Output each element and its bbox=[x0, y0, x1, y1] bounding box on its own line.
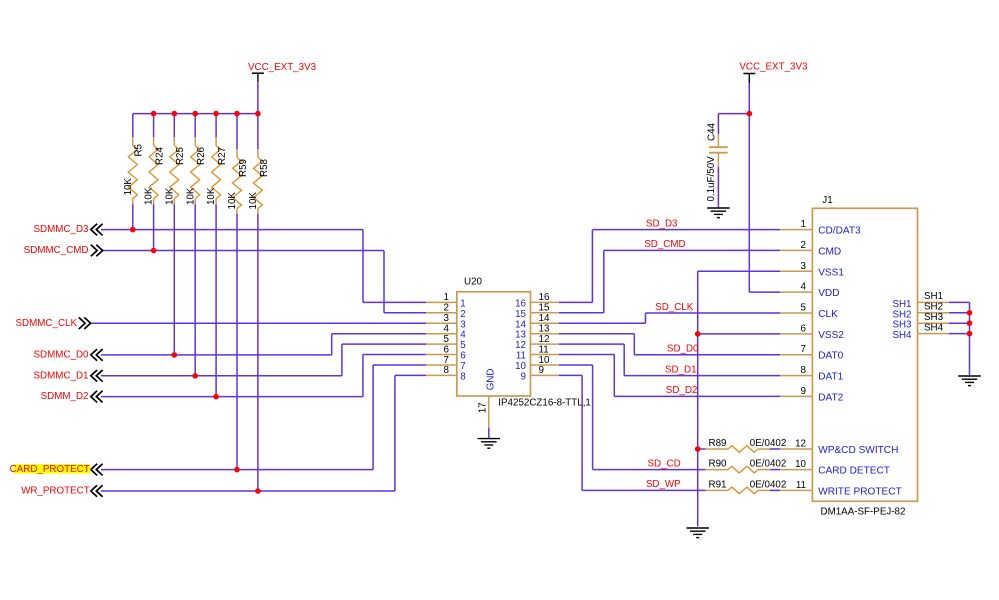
svg-text:R24: R24 bbox=[155, 146, 166, 165]
svg-text:11: 11 bbox=[516, 351, 526, 362]
svg-text:2: 2 bbox=[444, 303, 449, 314]
svg-text:R91: R91 bbox=[709, 479, 727, 490]
svg-text:9: 9 bbox=[521, 371, 526, 382]
svg-text:10K: 10K bbox=[144, 187, 155, 205]
svg-text:SH4: SH4 bbox=[924, 322, 944, 333]
svg-text:SH2: SH2 bbox=[892, 309, 911, 320]
svg-text:14: 14 bbox=[515, 319, 526, 330]
svg-text:2: 2 bbox=[801, 240, 806, 251]
svg-text:SH4: SH4 bbox=[892, 330, 912, 341]
svg-text:16: 16 bbox=[539, 292, 550, 303]
svg-text:SD_CMD: SD_CMD bbox=[644, 239, 685, 250]
svg-text:15: 15 bbox=[515, 309, 526, 320]
svg-text:5: 5 bbox=[460, 340, 466, 351]
svg-text:10K: 10K bbox=[227, 192, 238, 210]
svg-text:WR_PROTECT: WR_PROTECT bbox=[21, 486, 90, 497]
svg-text:R89: R89 bbox=[709, 438, 727, 449]
svg-text:VSS2: VSS2 bbox=[818, 330, 844, 341]
svg-text:9: 9 bbox=[801, 386, 806, 397]
svg-text:VCC_EXT_3V3: VCC_EXT_3V3 bbox=[739, 61, 808, 72]
svg-text:10K: 10K bbox=[185, 187, 196, 205]
svg-text:VSS1: VSS1 bbox=[818, 267, 844, 278]
svg-text:4: 4 bbox=[801, 282, 807, 293]
svg-text:0.1uF/50V: 0.1uF/50V bbox=[706, 156, 717, 202]
svg-text:VCC_EXT_3V3: VCC_EXT_3V3 bbox=[248, 62, 317, 73]
svg-text:9: 9 bbox=[539, 365, 544, 376]
svg-text:SDMMC_CMD: SDMMC_CMD bbox=[24, 245, 89, 256]
svg-text:12: 12 bbox=[515, 340, 526, 351]
svg-text:3: 3 bbox=[444, 313, 450, 324]
svg-text:16: 16 bbox=[515, 298, 526, 309]
svg-text:10: 10 bbox=[539, 355, 550, 366]
svg-text:DM1AA-SF-PEJ-82: DM1AA-SF-PEJ-82 bbox=[821, 506, 906, 517]
svg-text:SD_D2: SD_D2 bbox=[666, 385, 698, 396]
svg-text:4: 4 bbox=[444, 324, 450, 335]
svg-text:2: 2 bbox=[460, 309, 465, 320]
svg-text:SH1: SH1 bbox=[892, 299, 911, 310]
svg-text:SDMMC_D1: SDMMC_D1 bbox=[34, 370, 89, 381]
svg-text:C44: C44 bbox=[706, 122, 717, 141]
svg-text:11: 11 bbox=[539, 344, 549, 355]
svg-text:6: 6 bbox=[801, 323, 807, 334]
svg-text:R58: R58 bbox=[259, 158, 270, 177]
svg-text:SH3: SH3 bbox=[924, 312, 944, 323]
svg-text:5: 5 bbox=[801, 303, 807, 314]
svg-text:WP&CD SWITCH: WP&CD SWITCH bbox=[818, 445, 898, 456]
svg-text:SD_WP: SD_WP bbox=[646, 479, 681, 490]
svg-text:10K: 10K bbox=[206, 187, 217, 205]
svg-text:1: 1 bbox=[444, 292, 449, 303]
svg-text:0E/0402: 0E/0402 bbox=[750, 479, 787, 490]
svg-text:13: 13 bbox=[539, 324, 550, 335]
svg-text:11: 11 bbox=[796, 480, 806, 491]
svg-text:CMD: CMD bbox=[818, 246, 841, 257]
svg-text:SDMMC_D3: SDMMC_D3 bbox=[34, 224, 90, 235]
svg-text:CD/DAT3: CD/DAT3 bbox=[818, 226, 861, 237]
svg-text:R27: R27 bbox=[217, 147, 228, 165]
svg-text:SDMMC_CLK: SDMMC_CLK bbox=[15, 318, 77, 329]
svg-text:IP4252CZ16-8-TTL,1: IP4252CZ16-8-TTL,1 bbox=[498, 398, 591, 409]
svg-text:SH1: SH1 bbox=[924, 291, 943, 302]
svg-text:17: 17 bbox=[477, 402, 488, 413]
svg-text:DAT0: DAT0 bbox=[818, 351, 843, 362]
svg-text:10K: 10K bbox=[123, 178, 134, 196]
svg-text:3: 3 bbox=[801, 261, 807, 272]
svg-text:10: 10 bbox=[795, 459, 806, 470]
svg-text:SH3: SH3 bbox=[892, 320, 912, 331]
svg-text:1: 1 bbox=[801, 219, 806, 230]
svg-text:SD_CLK: SD_CLK bbox=[655, 302, 694, 313]
svg-text:10K: 10K bbox=[248, 192, 259, 210]
svg-text:SH2: SH2 bbox=[924, 302, 943, 313]
svg-text:8: 8 bbox=[801, 365, 807, 376]
svg-text:SD_D1: SD_D1 bbox=[665, 364, 697, 375]
svg-text:0E/0402: 0E/0402 bbox=[750, 438, 787, 449]
svg-text:SDMM_D2: SDMM_D2 bbox=[41, 391, 89, 402]
svg-text:DAT1: DAT1 bbox=[818, 372, 843, 383]
svg-text:4: 4 bbox=[460, 330, 466, 341]
svg-text:CARD DETECT: CARD DETECT bbox=[818, 466, 890, 477]
svg-text:6: 6 bbox=[444, 344, 450, 355]
svg-text:7: 7 bbox=[460, 361, 465, 372]
svg-text:5: 5 bbox=[444, 334, 450, 345]
svg-text:6: 6 bbox=[460, 351, 466, 362]
svg-text:12: 12 bbox=[795, 439, 806, 450]
svg-text:R59: R59 bbox=[238, 159, 249, 177]
svg-text:SD_D0: SD_D0 bbox=[667, 344, 699, 355]
svg-text:10K: 10K bbox=[164, 187, 175, 205]
svg-text:10: 10 bbox=[515, 361, 526, 372]
svg-text:R5: R5 bbox=[134, 143, 145, 156]
svg-text:CLK: CLK bbox=[818, 309, 838, 320]
svg-text:SD_CD: SD_CD bbox=[647, 458, 680, 469]
svg-text:CARD_PROTECT: CARD_PROTECT bbox=[10, 464, 90, 475]
svg-text:GND: GND bbox=[486, 369, 497, 391]
svg-text:12: 12 bbox=[539, 334, 550, 345]
svg-text:1: 1 bbox=[460, 298, 465, 309]
svg-text:R90: R90 bbox=[709, 459, 728, 470]
svg-text:15: 15 bbox=[539, 303, 550, 314]
svg-text:U20: U20 bbox=[464, 276, 483, 287]
svg-text:0E/0402: 0E/0402 bbox=[750, 459, 787, 470]
svg-text:WRITE PROTECT: WRITE PROTECT bbox=[818, 486, 902, 497]
svg-text:SD_D3: SD_D3 bbox=[646, 218, 678, 229]
svg-text:R25: R25 bbox=[175, 146, 186, 165]
svg-text:14: 14 bbox=[539, 313, 550, 324]
svg-text:13: 13 bbox=[515, 330, 526, 341]
svg-text:3: 3 bbox=[460, 319, 466, 330]
svg-text:VDD: VDD bbox=[818, 288, 839, 299]
svg-text:8: 8 bbox=[444, 365, 450, 376]
svg-text:J1: J1 bbox=[822, 195, 832, 206]
svg-text:7: 7 bbox=[444, 355, 449, 366]
svg-text:R26: R26 bbox=[196, 146, 207, 165]
svg-text:7: 7 bbox=[801, 344, 806, 355]
svg-text:SDMMC_D0: SDMMC_D0 bbox=[34, 350, 90, 361]
svg-text:8: 8 bbox=[460, 371, 466, 382]
svg-text:DAT2: DAT2 bbox=[818, 392, 843, 403]
